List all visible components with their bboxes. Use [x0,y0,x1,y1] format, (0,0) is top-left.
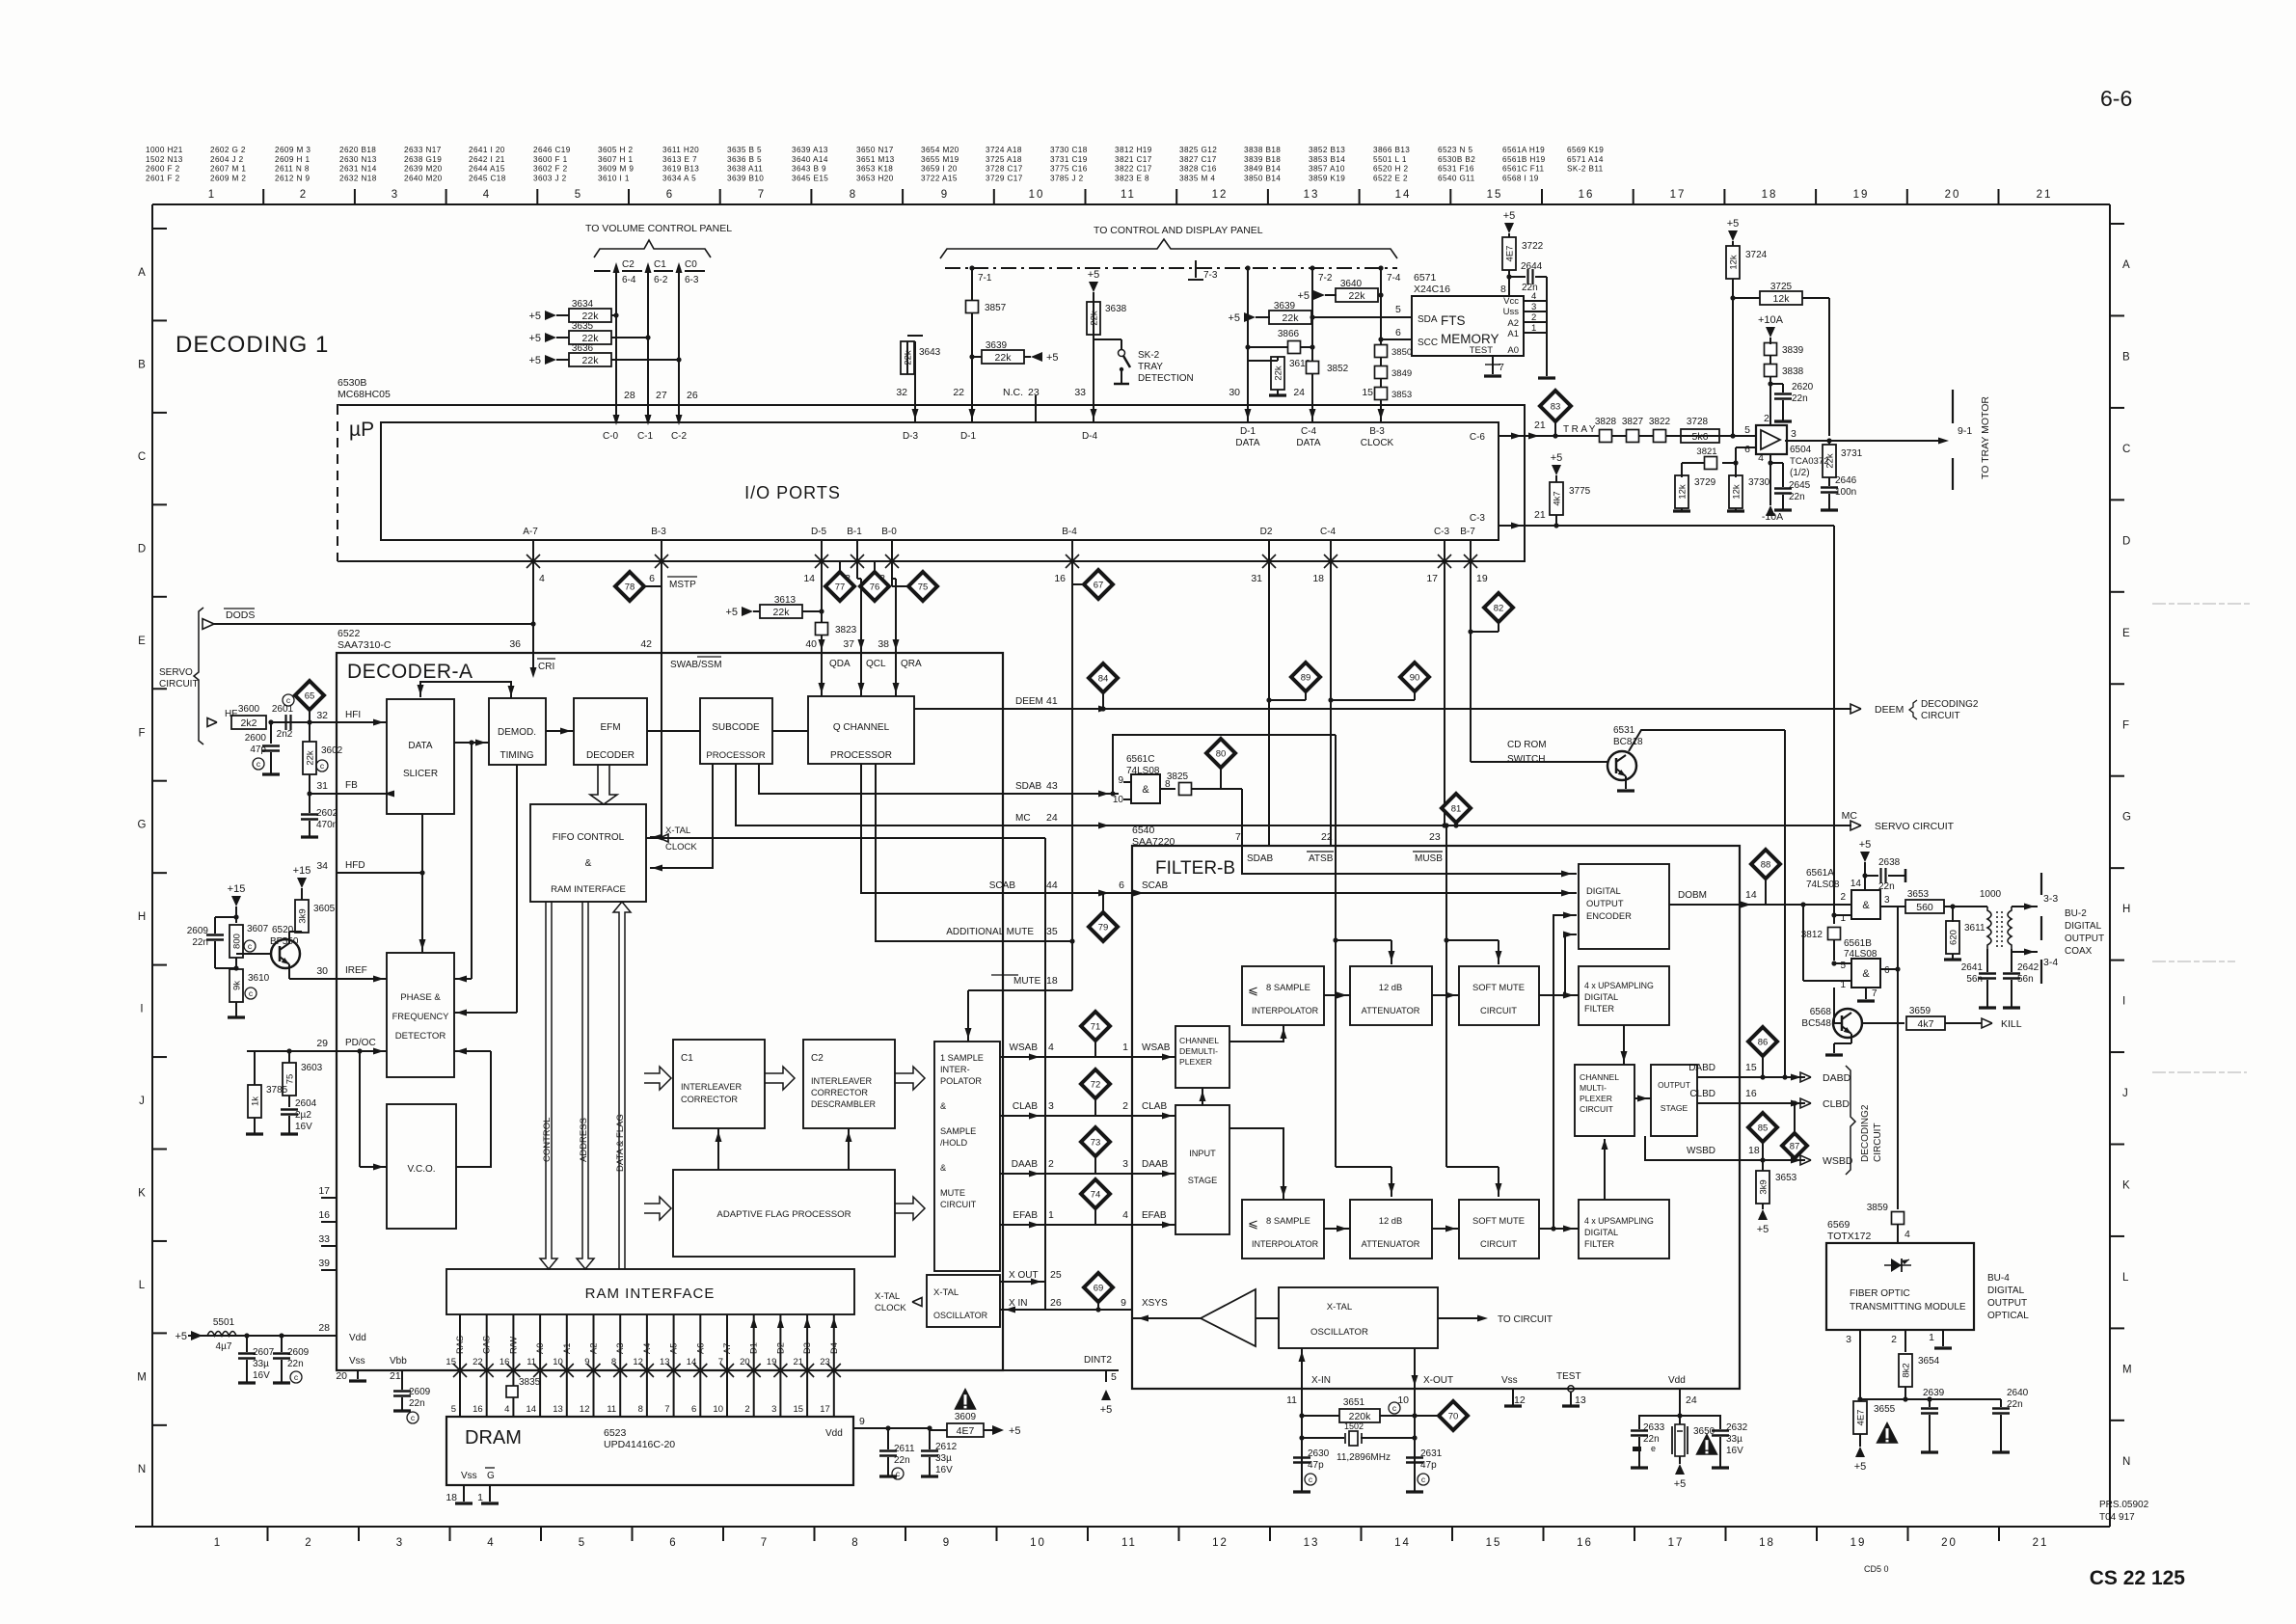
DEEM output wire [914,708,1851,710]
svg-text:A: A [2122,259,2130,271]
svg-text:6-3: 6-3 [685,275,699,285]
svg-text:CORRECTOR: CORRECTOR [681,1095,738,1104]
svg-text:22k: 22k [582,355,600,366]
svg-text:6530B: 6530B [338,377,366,389]
svg-text:OUTPUT: OUTPUT [1987,1298,2027,1309]
capacitor 2600 47p [270,722,272,744]
svg-text:17: 17 [820,1404,830,1415]
uP top pin 23 N.C. [1035,395,1037,422]
svg-text:18: 18 [1748,1145,1760,1156]
svg-text:3849 B14: 3849 B14 [1244,165,1281,174]
svg-text:16: 16 [473,1404,483,1415]
interpolator to attenuator bottom [1324,1228,1350,1230]
svg-text:4E7: 4E7 [1856,1410,1867,1426]
svg-text:34: 34 [316,860,328,872]
svg-text:23: 23 [1429,831,1441,843]
svg-text:24: 24 [1046,812,1058,824]
svg-text:2: 2 [1531,312,1536,323]
svg-text:C-0: C-0 [603,431,619,442]
uP top pin 15 wire B-3 CLOCK [1380,268,1382,422]
svg-text:3828 C16: 3828 C16 [1179,165,1217,174]
svg-text:SAA7310-C: SAA7310-C [338,639,392,651]
decoder stub pin 33 [321,1245,337,1247]
uP top pin 27 wire C1 [647,271,649,422]
svg-text:4 x UPSAMPLING: 4 x UPSAMPLING [1584,1216,1654,1226]
svg-text:B-3: B-3 [1369,426,1385,437]
wire D2 column [1268,561,1270,846]
block channel multiplexer circuit [1575,1065,1634,1136]
svg-text:2600: 2600 [245,733,267,744]
warning triangle 3655 [1876,1421,1898,1444]
dash-dot panel bus [945,267,1397,269]
ATSB internal bus [1335,846,1337,940]
svg-text:8: 8 [850,189,857,201]
svg-text:M: M [137,1371,147,1383]
svg-text:620: 620 [1949,930,1959,945]
block SUBCODE PROCESSOR [700,698,772,764]
crystal 1502 [1302,1437,1344,1439]
panel terminal bars C2 C1 C0 [594,270,610,272]
svg-text:DEEM: DEEM [1015,696,1043,707]
svg-text:2620 B18: 2620 B18 [339,146,376,154]
resistor 3724 12k [1728,230,1738,241]
resistor 3729 12k [1681,463,1683,477]
svg-text:X-TAL: X-TAL [665,826,690,836]
svg-text:&: & [940,1101,946,1111]
svg-text:Vss: Vss [1501,1375,1518,1386]
decoder stub pin 39 [321,1269,337,1271]
svg-text:J: J [139,1096,145,1107]
resistor 3611 620 [1952,907,1954,922]
component 3650 [1679,1416,1681,1424]
svg-text:3785: 3785 [266,1085,288,1096]
svg-text:23: 23 [1028,387,1040,398]
svg-text:3850: 3850 [1391,347,1412,358]
svg-text:SOFT MUTE: SOFT MUTE [1472,982,1525,992]
svg-text:6: 6 [666,189,674,201]
svg-text:3849: 3849 [1391,368,1412,379]
resistor 3825 [1160,788,1175,790]
block input stage [1175,1105,1229,1234]
block EFM DECODER [574,698,647,765]
MUTE wire [968,989,1072,991]
svg-text:3775 C16: 3775 C16 [1050,165,1088,174]
resistor 3821 [1736,447,1756,448]
svg-text:CD5 0: CD5 0 [1864,1564,1889,1574]
svg-text:2642 I 21: 2642 I 21 [469,155,505,164]
svg-text:2645 C18: 2645 C18 [469,174,506,182]
svg-text:3651: 3651 [1343,1397,1365,1408]
svg-text:22n: 22n [1789,492,1805,502]
svg-text:+5: +5 [725,607,738,618]
svg-text:7-2: 7-2 [1318,273,1333,284]
svg-text:SCAB: SCAB [1142,880,1169,891]
svg-text:10: 10 [1029,189,1045,201]
svg-text:CLBD: CLBD [1823,1098,1850,1110]
svg-text:3600: 3600 [238,704,260,715]
svg-text:2620: 2620 [1792,382,1814,392]
svg-text:3k9: 3k9 [298,908,309,923]
svg-text:30: 30 [1229,387,1240,398]
svg-text:3610 I 1: 3610 I 1 [598,174,630,182]
capacitor 2609a 22n [215,916,236,918]
svg-text:Vdd: Vdd [1668,1375,1686,1386]
svg-text:15: 15 [794,1404,804,1415]
svg-text:6569 K19: 6569 K19 [1567,146,1604,154]
svg-text:8: 8 [638,1404,643,1415]
channel mux to output stage [1634,1097,1651,1099]
svg-text:3643 B 9: 3643 B 9 [792,165,826,174]
svg-text:22: 22 [473,1357,483,1367]
svg-text:+5: +5 [1674,1478,1687,1490]
svg-text:12k: 12k [1773,293,1791,305]
svg-text:FILTER: FILTER [1584,1004,1614,1014]
svg-text:(1/2): (1/2) [1790,468,1810,478]
svg-text:8k2: 8k2 [1902,1363,1912,1377]
svg-text:3775: 3775 [1569,486,1591,497]
svg-text:3835 M 4: 3835 M 4 [1179,174,1215,182]
block DRAM 6523 [446,1417,853,1485]
decoding2 circuit brace [1846,1066,1855,1175]
svg-text:12 dB: 12 dB [1379,1215,1403,1226]
diamond node 67 [1084,570,1113,599]
gate 6561B input wires [1834,962,1851,964]
svg-text:2633 N17: 2633 N17 [404,146,442,154]
svg-text:SWAB/SSM: SWAB/SSM [670,660,722,670]
svg-text:TO CONTROL AND DISPLAY PAN: TO CONTROL AND DISPLAY PANEL [1094,225,1263,236]
svg-text:TRANSMITTING MODULE: TRANSMITTING MODULE [1850,1302,1966,1313]
resistor 3659 4k7 [1862,1022,1904,1024]
svg-text:7-4: 7-4 [1387,273,1401,284]
svg-text:D: D [138,543,146,555]
svg-text:B: B [2122,351,2130,363]
svg-text:2646 C19: 2646 C19 [533,146,571,154]
svg-text:21: 21 [794,1357,804,1367]
svg-text:+5: +5 [1088,269,1100,281]
svg-text:2: 2 [1122,1100,1128,1112]
svg-text:+5: +5 [528,355,541,366]
svg-text:3653: 3653 [1775,1173,1797,1183]
svg-text:EFM: EFM [600,722,620,733]
svg-text:13: 13 [1304,1537,1320,1549]
op-amp pin4 wire to -10A [1769,454,1771,505]
svg-text:2641: 2641 [1961,962,1984,973]
block PHASE FREQUENCY DETECTOR [387,953,454,1077]
svg-text:⩽: ⩽ [1248,1216,1258,1231]
svg-text:3821: 3821 [1696,447,1716,457]
block 4x upsampling top [1579,966,1669,1025]
svg-text:STAGE: STAGE [1661,1103,1688,1113]
capacitor 2612 33u 16V [888,1427,930,1429]
diamond node 86 [1748,1027,1777,1056]
HF input [207,718,217,727]
capacitor 2609c 22n [393,1390,411,1393]
svg-text:14: 14 [687,1357,697,1367]
svg-text:7: 7 [1235,831,1241,843]
wire C-3 17 column [1444,561,1445,826]
transistor 6531 BC818 [1607,751,1636,780]
svg-text:G: G [138,820,147,831]
svg-text:INPUT: INPUT [1189,1149,1216,1158]
resistor 3602 22k [303,742,316,774]
capacitor 2646 100n [1828,477,1830,486]
block 8 sample interpolator bottom [1242,1200,1324,1259]
svg-text:5501 L 1: 5501 L 1 [1373,155,1407,164]
svg-text:PLEXER: PLEXER [1580,1094,1612,1103]
resistor 3653b 3k9 [1762,1160,1764,1171]
svg-text:22n: 22n [1878,881,1895,892]
svg-text:5501: 5501 [213,1317,235,1328]
svg-text:3638 A11: 3638 A11 [727,165,763,174]
svg-text:22n: 22n [287,1359,304,1369]
block ADAPTIVE FLAG PROCESSOR [673,1170,895,1257]
soft mute top to encoder wire [1565,934,1577,995]
svg-text:13: 13 [660,1357,670,1367]
svg-text:6523: 6523 [604,1427,627,1439]
svg-text:A: A [138,267,146,279]
svg-text:1 SAMPLE: 1 SAMPLE [940,1053,984,1063]
svg-text:73: 73 [1091,1138,1101,1149]
svg-text:6569: 6569 [1827,1219,1850,1231]
svg-text:CHANNEL: CHANNEL [1179,1036,1219,1045]
svg-text:7: 7 [664,1404,669,1415]
WSBD wire [1645,1136,1740,1160]
svg-text:16: 16 [1577,1537,1593,1549]
block DATA SLICER [387,699,454,814]
svg-text:CONTROL: CONTROL [542,1118,553,1162]
svg-text:5: 5 [1744,424,1750,436]
svg-text:D-3: D-3 [903,431,919,442]
diamond node 80 [1206,739,1235,768]
diamond node 78 [615,572,644,601]
svg-text:2601 F 2: 2601 F 2 [146,174,180,182]
resistor 3638 22k [1089,282,1098,292]
svg-text:DECODING2: DECODING2 [1860,1104,1871,1162]
svg-text:+5: +5 [528,311,541,322]
svg-text:3821 C17: 3821 C17 [1115,155,1152,164]
svg-text:2630: 2630 [1308,1448,1330,1459]
diamond node 90 [1400,663,1429,691]
CLBD wire [1697,1102,1740,1104]
svg-text:PD/OC: PD/OC [345,1038,376,1048]
svg-text:OUTPUT: OUTPUT [1586,898,1624,908]
uP top pin 28 wire C2 [615,271,617,422]
svg-text:75: 75 [285,1074,296,1085]
resistor 3639b 22k [1244,312,1256,322]
diamond node 85 [1748,1113,1777,1142]
svg-text:STAGE: STAGE [1188,1176,1217,1185]
svg-text:2609 M 2: 2609 M 2 [210,174,246,182]
svg-text:SK-2 B11: SK-2 B11 [1567,165,1604,174]
svg-text:16: 16 [1745,1088,1757,1099]
svg-text:MEMORY: MEMORY [1441,332,1499,346]
svg-text:3852: 3852 [1327,364,1349,374]
svg-text:MC: MC [1842,810,1858,822]
svg-text:2639: 2639 [1923,1388,1945,1398]
svg-text:3728: 3728 [1687,417,1709,427]
svg-text:C2: C2 [811,1053,824,1064]
C-3 wire to decoding2 [1556,525,1834,527]
diamond node 71 [1081,1012,1110,1041]
svg-text:DABD: DABD [1823,1072,1851,1084]
svg-text:C-4: C-4 [1320,527,1337,537]
svg-text:18: 18 [1046,975,1058,987]
svg-text:3: 3 [392,189,399,201]
svg-text:DATA: DATA [408,741,433,751]
svg-text:TO CIRCUIT: TO CIRCUIT [1498,1314,1553,1325]
svg-text:2639 M20: 2639 M20 [404,165,443,174]
svg-text:3653 H20: 3653 H20 [856,174,894,182]
svg-text:15: 15 [446,1357,456,1367]
svg-text:D-1: D-1 [960,431,977,442]
svg-text:EFAB: EFAB [1142,1210,1167,1221]
svg-text:DESCRAMBLER: DESCRAMBLER [811,1099,876,1109]
svg-text:3828: 3828 [1595,417,1617,427]
svg-text:DINT2: DINT2 [1084,1355,1112,1366]
AFP to C1 C2 up wires [717,1128,719,1170]
svg-text:D: D [2122,535,2130,547]
svg-text:SDAB: SDAB [1015,781,1042,792]
svg-text:2n2: 2n2 [277,729,293,740]
svg-text:1: 1 [1122,1042,1128,1053]
svg-text:14: 14 [1395,189,1412,201]
svg-text:71: 71 [1091,1022,1101,1033]
resistor 3823 [816,623,828,636]
svg-text:BF550: BF550 [270,936,299,947]
svg-text:SCAB: SCAB [989,880,1016,891]
block 12dB attenuator bottom [1350,1200,1432,1259]
svg-text:3653 K18: 3653 K18 [856,165,893,174]
svg-text:4k7: 4k7 [1918,1018,1934,1030]
svg-text:PROCESSOR: PROCESSOR [830,750,892,761]
svg-text:15: 15 [1487,189,1503,201]
svg-text:OSCILLATOR: OSCILLATOR [933,1311,988,1320]
svg-text:A1: A1 [562,1343,572,1354]
svg-text:6540 G11: 6540 G11 [1438,174,1475,182]
svg-text:K: K [138,1188,146,1200]
svg-text:3: 3 [771,1404,776,1415]
resistor 3607 800 [235,913,237,923]
svg-text:3619 B13: 3619 B13 [662,165,699,174]
svg-text:RAM INTERFACE: RAM INTERFACE [551,884,626,895]
svg-text:CD ROM: CD ROM [1507,740,1547,750]
svg-text:2: 2 [300,189,308,201]
svg-text:1: 1 [477,1492,483,1503]
node 7-3 [1195,260,1197,278]
svg-text:Vss: Vss [349,1356,365,1367]
svg-text:3729: 3729 [1694,477,1716,488]
4x upsampling bottom to channel mux [1604,1139,1606,1200]
uP outer box [338,405,1525,561]
svg-text:PRS.05902: PRS.05902 [2099,1500,2149,1510]
capacitor 2604 2u2 16V [288,1096,290,1107]
capacitor 2641 56n [1986,949,1988,972]
resistor 3636 22k [545,355,556,365]
svg-text:6561B H19: 6561B H19 [1502,155,1546,164]
svg-text:1: 1 [208,189,216,201]
svg-text:TRAY: TRAY [1563,424,1598,435]
svg-text:A7: A7 [722,1343,732,1354]
block C2 INTERLEAVER CORRECTOR DESCRAMBLER [803,1040,895,1128]
svg-text:7: 7 [1499,362,1504,373]
svg-text:SUBCODE: SUBCODE [712,722,760,733]
SCAB output wire [861,764,1132,893]
svg-text:INTER-: INTER- [940,1065,970,1074]
svg-text:3812: 3812 [1801,930,1823,940]
svg-text:5: 5 [1840,961,1846,971]
svg-text:14: 14 [803,573,815,584]
svg-text:4: 4 [504,1404,509,1415]
svg-text:D-4: D-4 [1082,431,1098,442]
diamond node 73 [1081,1127,1110,1156]
svg-text:3-3: 3-3 [2043,893,2058,905]
ruler column ticks top [262,189,264,204]
svg-text:B: B [138,359,146,370]
svg-text:12 dB: 12 dB [1379,982,1403,992]
svg-text:INTERPOLATOR: INTERPOLATOR [1252,1239,1319,1249]
bottom soft mute to encoder wire [1553,915,1577,1229]
svg-text:D3: D3 [802,1342,812,1354]
svg-text:19: 19 [1476,573,1488,584]
svg-text:3640: 3640 [1340,279,1363,289]
svg-text:3825 G12: 3825 G12 [1179,146,1217,154]
svg-text:B-4: B-4 [1062,527,1077,537]
svg-text:3812 H19: 3812 H19 [1115,146,1152,154]
svg-text:-10A: -10A [1762,511,1783,523]
DABD output [1740,1076,1805,1078]
svg-text:Vdd: Vdd [349,1333,366,1343]
svg-text:Q CHANNEL: Q CHANNEL [833,722,890,733]
svg-text:FTS: FTS [1441,313,1466,328]
svg-text:3866: 3866 [1278,329,1300,339]
attenuator to soft mute bottom [1432,1228,1459,1230]
svg-text:4: 4 [1122,1209,1128,1221]
svg-text:72: 72 [1091,1080,1101,1091]
wire B-0 column to QRA [892,578,896,580]
svg-text:OUTPUT: OUTPUT [2065,934,2104,944]
attenuator to soft mute top [1432,994,1459,996]
svg-text:3653: 3653 [1907,889,1930,900]
svg-text:78: 78 [625,582,635,593]
resistor 3655 4E7 [1853,1401,1867,1434]
svg-text:2644 A15: 2644 A15 [469,165,505,174]
svg-text:CIRCUIT: CIRCUIT [1921,711,1960,721]
svg-text:30: 30 [316,965,328,977]
svg-text:3634 A 5: 3634 A 5 [662,174,696,182]
svg-text:C1: C1 [681,1053,693,1064]
svg-text:3639: 3639 [986,340,1008,351]
diamond node 69 [1084,1273,1113,1302]
svg-text:25: 25 [1050,1269,1062,1281]
svg-text:N: N [2122,1456,2130,1468]
svg-text:INTERLEAVER: INTERLEAVER [681,1082,743,1092]
decoder stub pin 17 [321,1197,337,1199]
svg-text:2609: 2609 [287,1347,310,1358]
svg-text:DETECTOR: DETECTOR [395,1031,446,1042]
svg-text:DEMULTI-: DEMULTI- [1179,1046,1218,1056]
svg-text:5: 5 [1395,304,1401,315]
svg-text:CORRECTOR: CORRECTOR [811,1088,868,1097]
resistor 3785 1k [248,1085,261,1118]
svg-text:26: 26 [687,390,698,401]
WSBD output [1740,1159,1805,1161]
svg-text:1: 1 [1531,323,1536,334]
svg-text:2: 2 [305,1537,312,1549]
svg-text:ATTENUATOR: ATTENUATOR [1362,1006,1420,1015]
DOBM wire [1669,904,1740,906]
svg-text:12: 12 [580,1404,590,1415]
svg-text:3731 C19: 3731 C19 [1050,155,1088,164]
